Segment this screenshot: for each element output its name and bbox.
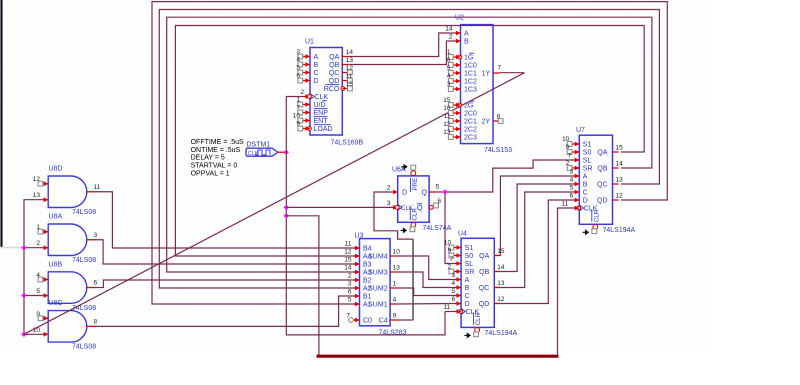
- AND gate U8D 74LS08 body: [48, 176, 87, 208]
- U1 pin 5 (C) nc: [305, 70, 310, 75]
- U7 pin 2 (SR) nc: [575, 166, 580, 171]
- U4 pin 11 (CLK): [457, 309, 462, 314]
- wire U8C.8 to U3.B1: [96, 296, 360, 326]
- svg-text:10: 10: [443, 105, 451, 112]
- svg-text:1Y: 1Y: [481, 71, 490, 78]
- svg-text:9: 9: [497, 114, 501, 121]
- svg-text:C: C: [583, 190, 588, 197]
- U2 pin 6 (1C0) nc: [456, 63, 461, 68]
- svg-text:C: C: [314, 70, 319, 77]
- U4 pin 9 (S0) nc: [457, 253, 462, 258]
- grey stub wire at left edge to node feeding U8 gate inputs: [0, 247, 24, 249]
- svg-text:SUM3: SUM3: [368, 270, 388, 277]
- svg-text:U8D: U8D: [49, 166, 63, 173]
- svg-text:QB: QB: [329, 62, 339, 69]
- U8B output pin 6: [87, 287, 96, 289]
- svg-text:2C1: 2C1: [464, 119, 477, 126]
- svg-text:STARTVAL = 0: STARTVAL = 0: [191, 163, 238, 170]
- U7 pin 4 (B): [575, 182, 580, 187]
- U6A pin 2 (D) wire from adder carry net: [374, 192, 413, 239]
- wire U8A.3 to U3.B3: [96, 240, 360, 264]
- U3 pin 4 (SUM1) to U4.D: [390, 303, 396, 305]
- svg-text:SR: SR: [583, 166, 593, 173]
- svg-text:A: A: [583, 174, 588, 181]
- svg-text:D: D: [402, 190, 407, 197]
- U8C input pin 9: [43, 317, 48, 319]
- svg-text:12: 12: [616, 193, 624, 200]
- svg-text:OPPVAL = 1: OPPVAL = 1: [191, 171, 230, 178]
- wire U1.QA to U2.A: [349, 33, 456, 57]
- svg-text:RCO: RCO: [324, 86, 340, 93]
- svg-text:U2: U2: [455, 15, 464, 22]
- wire bus bar up to U7.CLK pin 11: [558, 208, 578, 355]
- svg-text:B3: B3: [363, 262, 372, 269]
- svg-text:CLR: CLR: [593, 209, 600, 222]
- svg-text:10: 10: [562, 136, 570, 143]
- svg-text:15: 15: [346, 81, 354, 88]
- U4 pin 3 (A): [457, 277, 462, 282]
- svg-text:QC: QC: [329, 70, 340, 77]
- U4 pin 12 (QD) output: [494, 303, 500, 305]
- svg-text:3: 3: [348, 281, 352, 288]
- U4 pin 5 (C): [457, 293, 462, 298]
- svg-text:B: B: [314, 62, 319, 69]
- U3 pin 1 (SUM2) to U4.C: [390, 287, 396, 289]
- svg-text:B: B: [465, 285, 470, 292]
- svg-text:CLR: CLR: [412, 208, 419, 221]
- svg-text:6: 6: [348, 289, 352, 296]
- wire U8B.6 to U3.B2: [96, 280, 360, 288]
- svg-text:A: A: [314, 54, 319, 61]
- svg-text:A: A: [465, 277, 470, 284]
- U2 pin 12 (2C2) nc: [456, 127, 461, 132]
- U1 pin 4 (B) nc: [305, 62, 310, 67]
- U1 pin 15 (RCO) nc: [341, 87, 345, 91]
- svg-text:Q: Q: [422, 190, 428, 197]
- svg-text:1: 1: [447, 49, 451, 56]
- wire feedback node vertical at x=24 from U8D.13 to U8C.10: [24, 200, 43, 335]
- U4 pin 1 (CLR) nc below: [475, 328, 480, 333]
- svg-text:11: 11: [444, 113, 451, 120]
- svg-text:74LS08: 74LS08: [72, 344, 96, 351]
- svg-text:5: 5: [570, 185, 574, 192]
- svg-text:ONTIME = .5uS: ONTIME = .5uS: [191, 147, 241, 154]
- U2 pin 11 (2C1) nc: [456, 119, 461, 124]
- U3 pin 6 (B1): [355, 294, 360, 299]
- svg-text:CLK: CLK: [315, 94, 329, 101]
- svg-text:11: 11: [562, 201, 569, 208]
- svg-text:2: 2: [449, 34, 453, 41]
- svg-text:U8B: U8B: [49, 261, 63, 268]
- svg-text:13: 13: [443, 129, 451, 136]
- svg-text:2C2: 2C2: [464, 127, 477, 134]
- U8D output pin 11: [87, 191, 96, 193]
- AND gate U8B 74LS08 body: [48, 272, 87, 304]
- svg-text:C: C: [465, 293, 470, 300]
- svg-text:C0: C0: [363, 318, 372, 325]
- svg-text:4: 4: [570, 177, 574, 184]
- U2 pin 15 (2G) nc: [456, 103, 461, 108]
- U2 pin 3 (1C3) nc: [456, 87, 461, 92]
- svg-text:QD: QD: [479, 301, 490, 308]
- U3 pin 13 (SUM3) to U4.B: [390, 271, 396, 273]
- svg-text:8: 8: [94, 318, 98, 325]
- svg-text:9: 9: [447, 247, 451, 254]
- U7 pin 1 (CLR) nc below: [593, 225, 598, 230]
- U4 pin 14 (QB) output: [494, 271, 500, 273]
- svg-text:DSTM1: DSTM1: [247, 141, 271, 148]
- svg-text:5: 5: [436, 184, 440, 191]
- svg-text:QA: QA: [329, 54, 339, 61]
- wire U7.QD to U3.A1 (outermost loop): [152, 2, 667, 304]
- svg-text:B: B: [464, 39, 469, 46]
- svg-text:9: 9: [393, 313, 397, 320]
- svg-text:CLK: CLK: [248, 151, 259, 157]
- svg-text:A: A: [464, 31, 469, 38]
- svg-text:U8A: U8A: [49, 214, 63, 221]
- wire clock branch to U4.CLK pin 11: [445, 311, 459, 313]
- U3 pin 14 (A3): [355, 270, 360, 275]
- svg-text:74LS283: 74LS283: [379, 329, 407, 336]
- svg-text:3: 3: [94, 232, 98, 239]
- svg-text:14: 14: [346, 49, 354, 56]
- svg-text:74LS194A: 74LS194A: [485, 330, 518, 337]
- wire U4.QD to U7.D: [500, 200, 577, 304]
- U4 pin 10 (S1): [457, 245, 462, 250]
- svg-text:2C0: 2C0: [464, 111, 477, 118]
- wire U7.QA to U3.A4 (innermost loop): [175, 26, 644, 257]
- IC U3 74LS283 body: [360, 239, 391, 326]
- U3 pin 11 (B4): [355, 246, 360, 251]
- svg-text:5: 5: [36, 288, 40, 295]
- svg-text:4: 4: [296, 56, 300, 63]
- U1 pin 14 (QA) output: [342, 56, 349, 58]
- svg-text:15: 15: [344, 257, 352, 264]
- svg-text:2: 2: [348, 273, 352, 280]
- U4 pin 6 (D): [457, 301, 462, 306]
- svg-text:6: 6: [296, 72, 300, 79]
- svg-text:10: 10: [444, 239, 452, 246]
- svg-text:6: 6: [438, 198, 442, 205]
- U1 pin 10 (ENT) nc: [305, 118, 310, 123]
- svg-text:QC: QC: [479, 285, 490, 292]
- U8B input pin 4: [43, 279, 48, 281]
- svg-text:1C3: 1C3: [464, 87, 477, 94]
- svg-text:14: 14: [497, 264, 505, 271]
- U3 pin 7 (C0) nc: [355, 318, 360, 323]
- svg-text:S0: S0: [465, 253, 474, 260]
- U1 pin 12 (QC) nc: [342, 72, 349, 74]
- junction at U8A.2 tap: [21, 245, 26, 250]
- svg-text:QD: QD: [329, 78, 340, 85]
- svg-text:14: 14: [344, 265, 352, 272]
- AND gate U8C 74LS08 body: [48, 311, 87, 343]
- AND gate U8A 74LS08 body: [48, 224, 87, 256]
- wire U6A.Q to U7.SL staircase: [436, 160, 577, 192]
- svg-text:12: 12: [346, 65, 354, 72]
- svg-text:4: 4: [451, 280, 455, 287]
- U8C output pin 8: [87, 325, 96, 327]
- svg-text:SUM2: SUM2: [368, 286, 388, 293]
- svg-text:11: 11: [345, 241, 352, 248]
- U8B input pin 5: [43, 295, 48, 297]
- U2 pin 13 (2C3) nc: [456, 135, 461, 140]
- U6A pin 5 (Q) output: [429, 191, 436, 193]
- junction DSTM1 output on clock net: [284, 150, 289, 155]
- svg-text:10: 10: [293, 112, 301, 119]
- U3 pin 15 (B3): [355, 262, 360, 267]
- svg-text:14: 14: [445, 26, 453, 33]
- wire U8D.11 to U3.B4: [96, 192, 360, 248]
- U7 pin 12 (QD) output: [613, 199, 619, 201]
- U6A pin 1 (CLR) nc: [411, 223, 416, 228]
- D flip-flop U6A 74LS74A body: [398, 176, 429, 222]
- svg-text:5: 5: [447, 65, 451, 72]
- U7 pin 5 (C): [575, 190, 580, 195]
- svg-text:S1: S1: [583, 142, 592, 149]
- svg-text:S0: S0: [583, 150, 592, 157]
- U8C input pin 10: [43, 333, 48, 335]
- svg-text:B1: B1: [363, 294, 372, 301]
- U2 pin 9 (2Y) nc: [493, 120, 500, 122]
- svg-text:U3: U3: [355, 232, 364, 239]
- page border (black left edge line): [0, 0, 2, 248]
- svg-text:B: B: [583, 182, 588, 189]
- wire tap to U8A.2: [24, 247, 43, 249]
- svg-text:S1: S1: [465, 245, 474, 252]
- svg-text:QB: QB: [479, 269, 489, 276]
- U8D input pin 13: [43, 199, 48, 201]
- svg-text:5: 5: [348, 297, 352, 304]
- U1 pin 7 (ENP) nc: [305, 110, 310, 115]
- wire U4.QC to U7.C: [500, 192, 577, 288]
- svg-text:15: 15: [616, 145, 624, 152]
- svg-text:5: 5: [451, 288, 455, 295]
- svg-text:10: 10: [393, 249, 401, 256]
- svg-text:2: 2: [387, 185, 391, 192]
- svg-text:QC: QC: [597, 182, 608, 189]
- svg-text:2Y: 2Y: [481, 119, 490, 126]
- U3 pin 10 (SUM4) to U4.A: [390, 255, 396, 257]
- svg-text:7: 7: [346, 313, 350, 320]
- U7 pin 6 (D): [575, 198, 580, 203]
- U7 pin 13 (QC) output: [613, 183, 619, 185]
- svg-text:SR: SR: [465, 269, 475, 276]
- U4 pin 7 (SL): [457, 261, 462, 266]
- svg-text:1: 1: [393, 281, 397, 288]
- U1 pin 1 (U/D) nc: [305, 102, 310, 107]
- clock stimulus DSTM1 symbol: [246, 148, 278, 156]
- svg-text:2: 2: [36, 240, 40, 247]
- U6A pin 4 (PRE) nc: [411, 171, 416, 176]
- svg-text:D: D: [465, 301, 470, 308]
- svg-text:LOAD: LOAD: [314, 126, 333, 133]
- U1 pin 6 (D) nc: [305, 78, 310, 83]
- U7 pin 14 (QB) output: [613, 167, 619, 169]
- U3 pin 12 (A4): [355, 254, 360, 259]
- svg-text:9: 9: [566, 144, 570, 151]
- svg-text:5: 5: [296, 64, 300, 71]
- wire U6A.Q down to U4.SL pin 7: [445, 192, 458, 264]
- svg-text:3: 3: [447, 81, 451, 88]
- svg-text:9: 9: [296, 120, 300, 127]
- wire U2.1Y diagonal feedback to x=24 node: [24, 73, 525, 335]
- svg-text:1C1: 1C1: [464, 71, 477, 78]
- svg-text:74LS153: 74LS153: [484, 147, 512, 154]
- svg-text:3: 3: [451, 272, 455, 279]
- svg-text:QB: QB: [597, 166, 607, 173]
- U7 pin 15 (QA) output: [613, 151, 619, 153]
- svg-text:QA: QA: [597, 150, 607, 157]
- svg-text:6: 6: [447, 57, 451, 64]
- svg-text:CLR: CLR: [475, 312, 482, 325]
- svg-text:SUM1: SUM1: [368, 302, 388, 309]
- svg-text:DELAY = 5: DELAY = 5: [191, 155, 225, 162]
- svg-text:1G: 1G: [464, 55, 473, 62]
- svg-text:OFFTIME = .5uS: OFFTIME = .5uS: [191, 139, 244, 146]
- wire clock branch down to bus bar via x=318.9: [286, 216, 319, 355]
- svg-text:U1: U1: [305, 39, 314, 46]
- svg-text:7: 7: [568, 153, 572, 160]
- svg-text:SUM4: SUM4: [368, 254, 388, 261]
- svg-text:11: 11: [94, 184, 101, 191]
- svg-text:74LS08: 74LS08: [72, 257, 96, 264]
- U2 pin 7 (1Y) output to diagonal: [493, 72, 500, 74]
- U4 pin 13 (QC) output: [494, 287, 500, 289]
- U7 pin 7 (SL): [575, 158, 580, 163]
- svg-text:6: 6: [451, 296, 455, 303]
- svg-text:ENP: ENP: [314, 110, 329, 117]
- svg-text:7: 7: [296, 104, 300, 111]
- svg-text:4: 4: [393, 297, 397, 304]
- wire clock net vertical x=286.3 (DSTM1 up to U1.CLK, down to bottom): [286, 97, 445, 335]
- U4 pin 2 (SR) nc: [457, 269, 462, 274]
- svg-text:2: 2: [566, 160, 570, 167]
- svg-text:D: D: [583, 198, 588, 205]
- svg-text:74LS194A: 74LS194A: [603, 227, 636, 234]
- U6A pin 6 (Qbar) nc: [429, 206, 431, 208]
- svg-text:14: 14: [616, 161, 624, 168]
- svg-text:7: 7: [449, 256, 453, 263]
- svg-text:11: 11: [346, 73, 353, 80]
- U2 pin 4 (1C2) nc: [456, 79, 461, 84]
- U3 pin 3 (A2): [355, 286, 360, 291]
- U1 pin 9 (LOAD) nc: [305, 126, 310, 131]
- wire U7.QC to U3.A2: [159, 10, 659, 289]
- svg-text:2: 2: [447, 263, 451, 270]
- U8A input pin 1: [43, 231, 48, 233]
- svg-text:U/D: U/D: [314, 102, 326, 109]
- svg-text:D: D: [314, 78, 319, 85]
- wire U4.QA to U7.A: [500, 176, 577, 256]
- U3 pin 2 (B2): [355, 278, 360, 283]
- svg-text:12: 12: [497, 296, 505, 303]
- svg-text:B2: B2: [363, 278, 372, 285]
- svg-text:7: 7: [498, 64, 502, 71]
- U1 pin 11 (QD) nc: [342, 80, 349, 82]
- U7 pin 10 (S1): [575, 142, 580, 147]
- svg-text:SL: SL: [465, 261, 474, 268]
- svg-text:6: 6: [94, 280, 98, 287]
- svg-text:4: 4: [447, 73, 451, 80]
- svg-text:C4: C4: [379, 318, 388, 325]
- svg-text:U4: U4: [458, 230, 467, 237]
- svg-text:1C0: 1C0: [464, 63, 477, 70]
- svg-text:15: 15: [443, 97, 451, 104]
- svg-text:ENT: ENT: [314, 118, 329, 125]
- U2 pin 5 (1C1) nc: [456, 71, 461, 76]
- svg-text:3: 3: [387, 200, 391, 207]
- wire U1.QB to U2.B: [349, 41, 456, 65]
- U6A pin 3 (CLK) arrow: [393, 205, 398, 210]
- junction U6A.Q with clock vertical: [442, 189, 447, 194]
- svg-text:13: 13: [346, 57, 354, 64]
- junction clock to U6A.CLK wire: [284, 205, 289, 210]
- IC U1 74LS169B body: [310, 48, 342, 136]
- svg-text:QD: QD: [597, 198, 608, 205]
- junction at U8C.10 / diagonal start: [21, 332, 26, 337]
- U2 pin 2 (B) input: [456, 39, 461, 44]
- junction clock tap to bus bar branch: [284, 213, 289, 218]
- U1 pin 2 (CLK) from clock net: [305, 94, 310, 99]
- IC U7 74LS194A body: [579, 135, 612, 224]
- svg-text:74LS08: 74LS08: [72, 209, 96, 216]
- U2 pin 14 (A) input: [456, 31, 461, 36]
- U8D input pin 12: [43, 183, 48, 185]
- U2 pin 1 (1G) nc: [456, 55, 461, 60]
- U8A output pin 3: [87, 239, 96, 241]
- bus bar (thick clock rail): [317, 355, 559, 358]
- svg-text:13: 13: [616, 177, 624, 184]
- svg-text:3: 3: [570, 169, 574, 176]
- dark vertical of U6A.D to U3.C4 net: [412, 239, 414, 320]
- U4 pin 15 (QA) output: [494, 255, 500, 257]
- U3 pin 5 (A1): [355, 302, 360, 307]
- junction at U8B.5 tap: [21, 293, 26, 298]
- U7 pin 9 (S0) nc: [575, 150, 580, 155]
- U1 pin 3 (A) nc: [305, 54, 310, 59]
- svg-text:2: 2: [300, 89, 304, 96]
- U7 pin 3 (A): [575, 174, 580, 179]
- svg-text:2C3: 2C3: [464, 135, 477, 142]
- svg-text:11: 11: [443, 304, 450, 311]
- svg-text:13: 13: [497, 280, 505, 287]
- svg-text:1C2: 1C2: [464, 79, 477, 86]
- svg-text:12: 12: [443, 121, 451, 128]
- U8A input pin 2: [43, 247, 48, 249]
- svg-text:PRE: PRE: [412, 178, 419, 191]
- svg-text:74LS74A: 74LS74A: [423, 225, 452, 232]
- wire tap to U8B.5: [24, 295, 43, 297]
- wire U4.QB to U7.B: [500, 184, 577, 272]
- svg-text:U8C: U8C: [49, 300, 63, 307]
- svg-text:15: 15: [497, 248, 505, 255]
- svg-text:U7: U7: [576, 127, 585, 134]
- svg-text:3: 3: [296, 48, 300, 55]
- IC U2 74LS153 body: [461, 25, 494, 144]
- svg-text:13: 13: [33, 192, 41, 199]
- IC U4 74LS194A body: [461, 238, 494, 327]
- svg-text:74LS169B: 74LS169B: [331, 140, 364, 147]
- U3 pin 9 (C4) to U6A.D net: [390, 319, 398, 321]
- wire clock tap to U6A.CLK pin 3: [286, 206, 397, 208]
- U1 pin 13 (QB) output: [342, 64, 349, 66]
- svg-text:2G: 2G: [464, 103, 473, 110]
- svg-text:12: 12: [344, 249, 352, 256]
- svg-text:13: 13: [393, 265, 401, 272]
- DSTM1 output stub: [278, 151, 287, 153]
- svg-text:SL: SL: [583, 158, 592, 165]
